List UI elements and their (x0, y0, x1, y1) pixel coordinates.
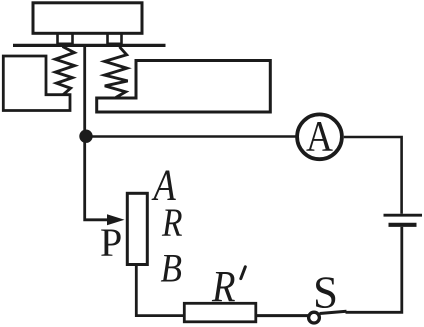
resistor R' box (184, 303, 256, 322)
switch lever (320, 311, 347, 313)
spring right (105, 47, 128, 98)
wire switch to resistor (255, 314, 309, 317)
spring left (55, 47, 74, 95)
prime mark of R' (241, 267, 246, 279)
left support base (3, 56, 70, 111)
wire battery to switch (346, 227, 402, 312)
object block M (33, 3, 142, 34)
rheostat R box (127, 193, 147, 264)
switch pivot circle (309, 312, 320, 323)
battery long plate (384, 214, 423, 217)
svg-text:A: A (306, 113, 333, 160)
ammeter A circle (297, 114, 342, 159)
svg-text:S: S (313, 268, 338, 318)
wire junction to ammeter (90, 135, 297, 138)
wire resistor to rheostat bottom (136, 266, 185, 316)
wiper arrowhead (107, 214, 125, 225)
svg-text:R: R (211, 262, 235, 311)
svg-text:P: P (100, 220, 122, 265)
svg-text:R: R (161, 200, 182, 245)
wire ammeter to battery (344, 137, 402, 214)
wire plate down through junction to wiper level (85, 47, 109, 220)
node junction dot (79, 130, 92, 143)
platform plate (13, 44, 166, 47)
block left foot (58, 33, 73, 44)
block right foot (108, 33, 122, 44)
svg-text:B: B (161, 245, 183, 290)
right support base (97, 61, 271, 113)
battery short plate (389, 223, 417, 227)
